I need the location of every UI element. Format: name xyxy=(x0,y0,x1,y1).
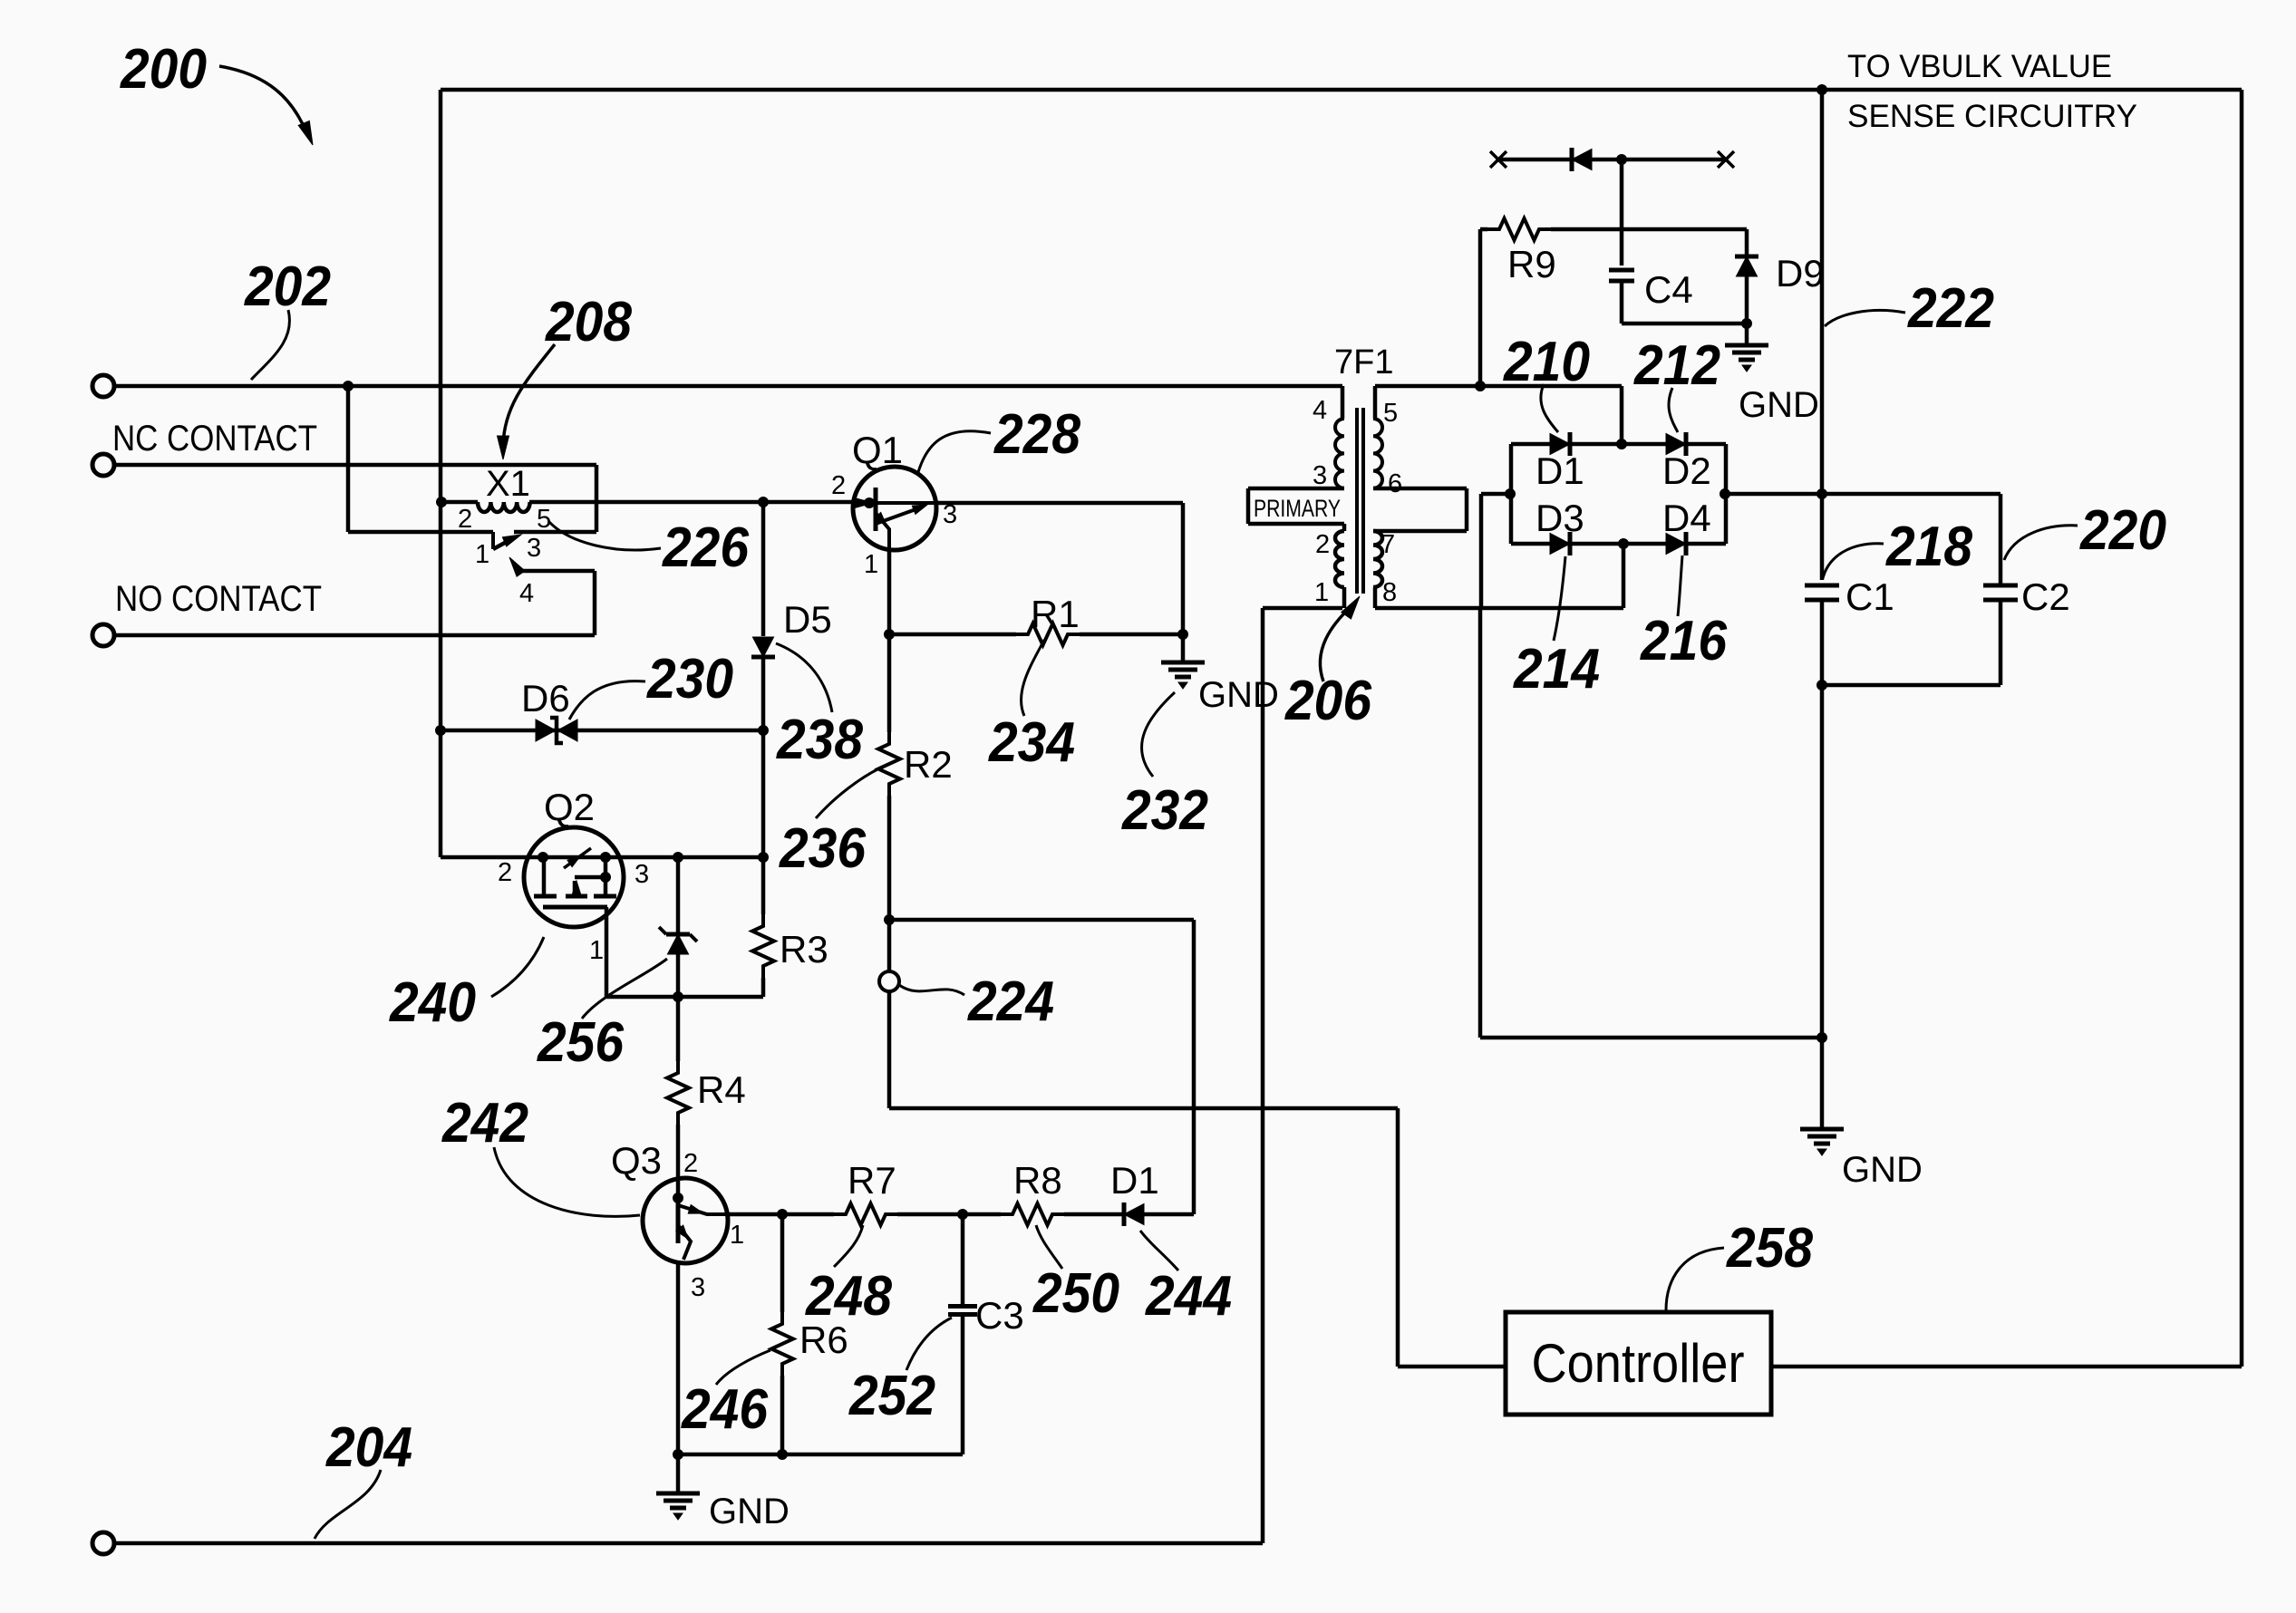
label R3 xyxy=(780,928,828,971)
label 206 xyxy=(1284,670,1371,732)
label 232 xyxy=(1121,779,1208,842)
leader 224 xyxy=(899,985,964,995)
svg-text:240: 240 xyxy=(389,971,476,1034)
label R7 xyxy=(848,1159,896,1202)
svg-text:D1: D1 xyxy=(1110,1159,1159,1202)
label 7F1 xyxy=(1334,343,1393,382)
label 202 xyxy=(244,256,331,318)
pin 1 xfmr xyxy=(1314,578,1329,607)
leader 212 xyxy=(1669,388,1678,432)
svg-text:D2: D2 xyxy=(1662,449,1711,492)
Q3 base xyxy=(673,1179,683,1243)
diode D6 left half xyxy=(536,720,556,741)
label D5 xyxy=(783,598,832,641)
svg-text:2: 2 xyxy=(498,858,512,887)
label 222 xyxy=(1907,277,1994,340)
Q2 substrate xyxy=(543,905,607,910)
wire zener drop xyxy=(673,853,683,935)
label 236 xyxy=(779,817,866,880)
label TO VBULK VALUE xyxy=(1847,49,2112,84)
node bridge top mid xyxy=(1617,439,1627,449)
wire Q2 gate row xyxy=(441,853,769,863)
label 216 xyxy=(1640,610,1727,672)
label Q3 xyxy=(611,1139,662,1182)
wire C1/C2 bottom join xyxy=(1817,681,2001,691)
svg-text:256: 256 xyxy=(537,1011,624,1074)
svg-text:1: 1 xyxy=(589,936,604,965)
svg-text:Controller: Controller xyxy=(1532,1333,1745,1394)
leader 256 xyxy=(582,959,667,1019)
svg-text:212: 212 xyxy=(1633,334,1720,397)
label D9 xyxy=(1776,252,1825,295)
leader 232 xyxy=(1142,692,1175,777)
svg-text:232: 232 xyxy=(1121,779,1208,842)
wire 204 riser to primary pin1 xyxy=(1263,608,1342,1543)
svg-text:D5: D5 xyxy=(783,598,832,641)
wire 204 bottom line xyxy=(114,1541,1263,1546)
svg-text:250: 250 xyxy=(1032,1262,1119,1325)
wire top border xyxy=(441,88,2242,92)
capacitor C2 xyxy=(1983,494,2018,685)
leader 242 xyxy=(494,1147,640,1216)
svg-text:6: 6 xyxy=(1388,469,1402,498)
svg-text:D1: D1 xyxy=(1536,449,1584,492)
pin 8 xfmr xyxy=(1382,578,1397,607)
label 246 xyxy=(681,1378,768,1441)
terminal 202 input xyxy=(92,375,114,397)
svg-text:1: 1 xyxy=(1314,578,1329,607)
pin 7 xfmr xyxy=(1381,530,1395,559)
label R1 xyxy=(1031,593,1080,635)
svg-text:2: 2 xyxy=(683,1149,698,1178)
pin 2 Q1 xyxy=(831,471,846,500)
label R9 xyxy=(1507,243,1556,285)
svg-text:202: 202 xyxy=(244,256,331,318)
Q1 base bar xyxy=(865,488,877,531)
svg-text:R2: R2 xyxy=(904,743,953,786)
wire R1 gnd stem xyxy=(1181,634,1186,662)
svg-text:C3: C3 xyxy=(975,1294,1024,1337)
resistor R1 xyxy=(1015,623,1080,645)
svg-text:R3: R3 xyxy=(780,928,828,971)
ground D9 xyxy=(1725,345,1768,372)
svg-text:226: 226 xyxy=(662,517,749,579)
leader 234 xyxy=(1022,640,1044,716)
wire to controller horizontal xyxy=(889,1106,1398,1111)
resistor R6 xyxy=(771,1214,793,1454)
Q1 emitter internal xyxy=(855,498,889,551)
svg-text:GND: GND xyxy=(1842,1150,1923,1190)
svg-text:1: 1 xyxy=(864,550,878,579)
svg-text:GND: GND xyxy=(1739,385,1819,425)
leader arrow 208 xyxy=(498,344,556,459)
label PRIMARY xyxy=(1254,495,1341,522)
label 212 xyxy=(1633,334,1720,397)
Q1 collector internal xyxy=(876,505,927,524)
leader 230 xyxy=(569,681,645,720)
svg-text:X1: X1 xyxy=(486,464,530,504)
pin 6 xfmr xyxy=(1388,469,1402,498)
pin 2 xfmr xyxy=(1315,530,1330,559)
resistor R7 xyxy=(833,1203,898,1225)
relay X1 box right xyxy=(514,465,596,532)
diode D4 xyxy=(1666,532,1686,555)
transformer secondary top stub xyxy=(1373,386,1378,419)
label 248 xyxy=(805,1265,892,1328)
wire sense lower vertical xyxy=(1817,685,1827,1129)
pin 1 relay xyxy=(475,540,489,569)
label D3 xyxy=(1536,497,1584,539)
wire NO line-in / relay box bottom xyxy=(114,633,595,638)
transistor Q2 circle xyxy=(524,827,624,927)
label NC CONTACT xyxy=(112,419,317,459)
svg-text:D3: D3 xyxy=(1536,497,1584,539)
label D1 feedback xyxy=(1110,1159,1159,1202)
node bridge in xyxy=(1506,489,1516,499)
svg-text:4: 4 xyxy=(519,579,534,608)
svg-text:GND: GND xyxy=(709,1492,790,1531)
label 226 xyxy=(662,517,749,579)
node snubber mid xyxy=(1617,155,1627,165)
label GND D9 xyxy=(1739,385,1819,425)
label 210 xyxy=(1503,331,1590,393)
svg-text:R1: R1 xyxy=(1031,593,1080,635)
svg-text:236: 236 xyxy=(779,817,866,880)
label 256 xyxy=(537,1011,624,1074)
label 242 xyxy=(441,1092,528,1154)
pin 4 xfmr xyxy=(1313,396,1327,425)
leader 258 xyxy=(1666,1248,1724,1310)
leader arrow 206 xyxy=(1320,596,1360,681)
wire D6 row xyxy=(436,726,764,736)
ground R1 xyxy=(1161,662,1205,689)
svg-text:1: 1 xyxy=(475,540,489,569)
leader 238 xyxy=(776,643,832,712)
leader 236 xyxy=(816,768,879,818)
svg-text:220: 220 xyxy=(2079,499,2166,562)
label SENSE CIRCUITRY xyxy=(1847,99,2137,134)
leader arrow 200 xyxy=(219,66,313,145)
pin 2 Q2 xyxy=(498,858,512,887)
leader 244 xyxy=(1140,1231,1178,1270)
label GND 222 xyxy=(1842,1150,1923,1190)
label NO CONTACT xyxy=(115,579,322,619)
svg-text:8: 8 xyxy=(1382,578,1397,607)
diode D3 xyxy=(1550,532,1570,555)
transformer secondary bottom stub xyxy=(1373,587,1378,608)
wire bridge bottom drop xyxy=(1622,544,1626,608)
label 252 xyxy=(848,1365,935,1427)
wire bridge input riser xyxy=(1481,494,1511,608)
wire gnd return riser xyxy=(1478,608,1483,1038)
transformer primary top stub xyxy=(1341,386,1345,419)
wire NC line-in / relay box top xyxy=(114,463,596,468)
label 208 xyxy=(545,291,632,353)
svg-text:2: 2 xyxy=(831,471,846,500)
svg-text:234: 234 xyxy=(988,711,1075,774)
ground Q3 xyxy=(656,1493,700,1520)
diode D2 xyxy=(1666,432,1686,456)
svg-text:NO CONTACT: NO CONTACT xyxy=(115,579,322,619)
diode D6 bar xyxy=(550,718,563,743)
pin 3 xfmr xyxy=(1313,461,1327,490)
bridge box xyxy=(1511,444,1726,544)
label Controller xyxy=(1532,1333,1745,1394)
transformer primary lower winding xyxy=(1335,524,1344,608)
svg-text:D6: D6 xyxy=(521,677,570,720)
label D6 xyxy=(521,677,570,720)
transformer secondary upper winding xyxy=(1373,419,1382,488)
svg-text:214: 214 xyxy=(1513,638,1600,700)
leader 252 xyxy=(906,1318,952,1370)
wire primary pin3 xyxy=(1248,487,1344,491)
node C3 top xyxy=(958,1210,968,1220)
snubber x right xyxy=(1718,151,1734,168)
svg-text:246: 246 xyxy=(681,1378,768,1441)
svg-text:GND: GND xyxy=(1198,675,1279,715)
leader 210 xyxy=(1541,384,1558,432)
node R6 top xyxy=(778,1210,788,1220)
terminal NO input xyxy=(92,624,114,646)
svg-text:3: 3 xyxy=(635,860,649,889)
wire emitter chain lower xyxy=(887,920,892,1108)
wire zener to node xyxy=(673,954,683,1002)
node D6 right xyxy=(759,726,769,736)
snubber line xyxy=(1498,158,1726,162)
label 230 xyxy=(646,648,733,710)
capacitor C3 xyxy=(948,1214,977,1454)
leader 216 xyxy=(1678,555,1682,616)
wire secondary top rail xyxy=(1375,384,1622,389)
transformer primary upper winding xyxy=(1335,419,1344,488)
wire rail drop to bridge xyxy=(1620,386,1624,444)
Q2 left plate xyxy=(538,853,548,897)
pin 3 Q1 xyxy=(943,500,957,529)
resistor R9 loop xyxy=(1480,218,1747,386)
svg-text:R7: R7 xyxy=(848,1159,896,1202)
zener diode 256 xyxy=(659,927,697,954)
svg-text:5: 5 xyxy=(537,505,551,534)
svg-text:C2: C2 xyxy=(2021,575,2070,618)
svg-text:218: 218 xyxy=(1885,516,1972,578)
wire Q3 pin1 row xyxy=(725,1212,1124,1217)
pin 1 Q3 xyxy=(730,1221,744,1250)
Q2 body line xyxy=(572,873,611,897)
wire gnd return horizontal xyxy=(1480,1036,1822,1040)
svg-text:D4: D4 xyxy=(1662,497,1711,539)
svg-text:C1: C1 xyxy=(1846,575,1894,618)
ground 222 xyxy=(1800,1129,1844,1155)
diode D5 xyxy=(751,637,775,657)
transformer core xyxy=(1357,408,1363,594)
svg-text:2: 2 xyxy=(1315,530,1330,559)
label 220 xyxy=(2079,499,2166,562)
pin 4 relay xyxy=(519,579,534,608)
wire Q2/zener/R3 bottom connector xyxy=(606,995,763,1000)
svg-text:Q1: Q1 xyxy=(852,429,903,471)
label GND R1 xyxy=(1198,675,1279,715)
leader 228 xyxy=(918,431,991,472)
Q3 emitter xyxy=(676,1225,691,1260)
svg-text:208: 208 xyxy=(545,291,632,353)
leader 214 xyxy=(1554,556,1565,641)
relay X1 coil xyxy=(437,497,868,513)
wire R1 row xyxy=(885,630,1188,640)
label 258 xyxy=(1726,1217,1813,1280)
svg-text:3: 3 xyxy=(1313,461,1327,490)
label 204 xyxy=(325,1416,412,1479)
svg-text:258: 258 xyxy=(1726,1217,1813,1280)
svg-text:C4: C4 xyxy=(1644,268,1693,311)
svg-text:1: 1 xyxy=(730,1221,744,1250)
node bridge bottom mid xyxy=(1619,539,1629,549)
relay X1 NO contact xyxy=(509,557,595,635)
terminal NC input xyxy=(92,454,114,476)
snubber x left xyxy=(1490,151,1506,168)
label D1 xyxy=(1536,449,1584,492)
label X1 xyxy=(486,464,530,504)
pin 3 Q3 xyxy=(691,1273,705,1302)
primary label box xyxy=(1248,488,1344,524)
leader 250 xyxy=(1036,1225,1062,1269)
label C2 xyxy=(2021,575,2070,618)
svg-text:PRIMARY: PRIMARY xyxy=(1254,495,1341,522)
wire Q3 emitter drop xyxy=(676,1262,681,1454)
resistor R8 xyxy=(1000,1203,1065,1225)
Q3 collector xyxy=(678,1205,725,1215)
leader 226 xyxy=(548,521,661,550)
wire D9 gnd stem xyxy=(1745,324,1749,345)
label R6 xyxy=(799,1318,848,1361)
wire right border xyxy=(2240,90,2244,1367)
resistor R3 xyxy=(752,857,774,997)
label R4 xyxy=(697,1068,746,1111)
relay X1 armature xyxy=(493,532,521,549)
label 228 xyxy=(993,403,1080,466)
diode D1 xyxy=(1550,432,1570,456)
leader 220 xyxy=(2004,526,2078,560)
Q1 internal rail xyxy=(856,501,935,505)
svg-text:Q3: Q3 xyxy=(611,1139,662,1182)
svg-text:2: 2 xyxy=(458,505,472,534)
leader 240 xyxy=(491,937,544,997)
svg-text:R4: R4 xyxy=(697,1068,746,1111)
wire controller left riser xyxy=(1398,1108,1506,1367)
pin 1 Q1 xyxy=(864,550,878,579)
wire Q3 gnd stem xyxy=(676,1454,681,1493)
capacitor C1 xyxy=(1805,585,1839,685)
svg-text:210: 210 xyxy=(1503,331,1590,393)
svg-text:204: 204 xyxy=(325,1416,412,1479)
svg-text:252: 252 xyxy=(848,1365,935,1427)
wire D5 branch vertical xyxy=(759,497,769,637)
diode D6 right half xyxy=(557,720,577,741)
svg-text:3: 3 xyxy=(527,534,541,563)
label GND Q3 xyxy=(709,1492,790,1531)
svg-text:224: 224 xyxy=(967,971,1054,1033)
diode D9 xyxy=(1735,256,1758,324)
wire secondary 6-7 loop xyxy=(1373,488,1467,531)
capacitor C4 xyxy=(1609,270,1634,324)
svg-text:SENSE CIRCUITRY: SENSE CIRCUITRY xyxy=(1847,99,2137,134)
svg-text:230: 230 xyxy=(646,648,733,710)
wire D1 riser xyxy=(889,920,1194,1214)
pin 5 xfmr xyxy=(1383,399,1398,428)
svg-text:7F1: 7F1 xyxy=(1334,343,1393,382)
pin 3 Q2 xyxy=(635,860,649,889)
label Q1 xyxy=(852,429,903,471)
label 244 xyxy=(1145,1265,1232,1328)
terminal 204 input xyxy=(92,1532,114,1554)
transistor Q1 circle xyxy=(853,467,936,550)
wire C4/D9 bottom xyxy=(1622,319,1752,329)
label R2 xyxy=(904,743,953,786)
label 240 xyxy=(389,971,476,1034)
pin 2 relay xyxy=(458,505,472,534)
wire relay drop from 202 xyxy=(348,386,493,532)
svg-text:238: 238 xyxy=(776,709,863,771)
label 234 xyxy=(988,711,1075,774)
svg-text:5: 5 xyxy=(1383,399,1398,428)
controller box xyxy=(1506,1312,1771,1415)
label D4 xyxy=(1662,497,1711,539)
wire Q2 pin1 drop xyxy=(605,907,609,997)
wire D5 to D6 row xyxy=(761,657,766,857)
diode D1 feedback xyxy=(1124,1203,1144,1226)
label C3 xyxy=(975,1294,1024,1337)
label R8 xyxy=(1013,1159,1062,1202)
node 1015 T xyxy=(885,915,895,925)
label 218 xyxy=(1885,516,1972,578)
label D2 xyxy=(1662,449,1711,492)
wire secondary pin8 row xyxy=(1375,606,1623,611)
wire left vertical bus xyxy=(439,90,443,857)
wire 202 line-in xyxy=(114,384,1342,389)
leader 222 xyxy=(1825,310,1905,326)
Q2 zap mark xyxy=(564,848,591,868)
wire Q3 bottom connector xyxy=(673,1450,964,1460)
svg-text:200: 200 xyxy=(120,38,207,101)
svg-text:206: 206 xyxy=(1284,670,1371,732)
label 224 xyxy=(967,971,1054,1033)
svg-text:216: 216 xyxy=(1640,610,1727,672)
svg-text:NC CONTACT: NC CONTACT xyxy=(112,419,317,459)
pin 3 relay xyxy=(527,534,541,563)
leader 204 xyxy=(315,1470,381,1539)
wire Q1 emitter vertical xyxy=(887,550,892,732)
label C4 xyxy=(1644,268,1693,311)
leader 202 xyxy=(251,310,289,380)
wire snubber drop to C4 xyxy=(1620,159,1624,266)
snubber diode xyxy=(1572,148,1592,171)
node bridge out xyxy=(1720,489,1730,499)
resistor R2 xyxy=(878,731,900,920)
wire sense vertical xyxy=(1817,85,1827,581)
node R9 tap xyxy=(1476,382,1486,391)
svg-text:228: 228 xyxy=(993,403,1080,466)
svg-text:TO VBULK VALUE: TO VBULK VALUE xyxy=(1847,49,2112,84)
svg-text:Q2: Q2 xyxy=(544,786,595,828)
svg-text:244: 244 xyxy=(1145,1265,1232,1328)
svg-text:242: 242 xyxy=(441,1092,528,1154)
svg-text:D9: D9 xyxy=(1776,252,1825,295)
transistor Q3 circle xyxy=(643,1178,728,1263)
svg-text:R8: R8 xyxy=(1013,1159,1062,1202)
svg-text:4: 4 xyxy=(1313,396,1327,425)
pin 5 relay xyxy=(537,505,551,534)
pin 2 Q3 xyxy=(683,1149,698,1178)
wire controller right feed xyxy=(1771,1365,2242,1369)
